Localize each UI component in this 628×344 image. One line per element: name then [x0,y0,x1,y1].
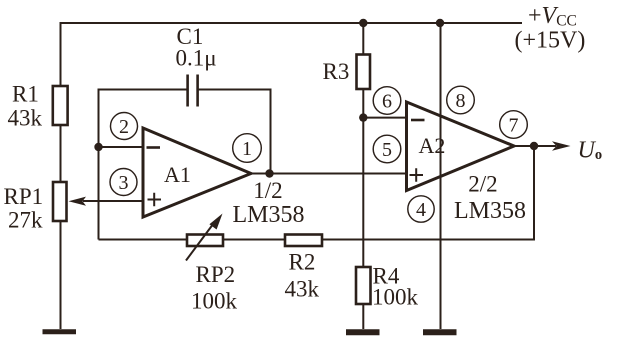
output arrowhead [552,141,571,151]
svg-text:LM358: LM358 [233,202,305,228]
svg-text:4: 4 [416,199,426,221]
wire: C1 left lead [98,89,188,91]
pin 4 [408,196,434,222]
ground (R4 column) [346,329,380,335]
pin 8 [447,86,475,114]
svg-text:2/2: 2/2 [468,172,497,197]
svg-text:43k: 43k [8,106,43,131]
svg-text:R1: R1 [12,82,39,107]
op-amp A1 [143,128,251,217]
RP2 adjustment arrow [186,214,223,261]
junction: A2 output node dot [530,142,538,150]
ground (A2 pin4 column) [423,329,457,335]
wire: RP1 wiper to A1 pin3 input [83,200,143,202]
svg-text:R3: R3 [323,59,350,84]
wire: R3/R4 column from rail to ground [362,23,364,329]
svg-text:A2: A2 [419,133,446,158]
svg-text:(+15V): (+15V) [515,28,586,54]
wire: A1 pin2 inverting input [99,146,144,148]
A2 plus sign [410,168,424,181]
junction: A1 output node dot [265,169,273,177]
A1 minus sign [147,146,161,149]
svg-text:27k: 27k [8,208,43,233]
pin 2 [111,113,138,140]
junction: rail to R3 dot [359,19,367,27]
svg-text:0.1μ: 0.1μ [176,46,217,71]
wire: A2 pin6 inverting input [363,117,406,119]
svg-text:100k: 100k [191,289,238,314]
pin 7 [500,111,528,139]
potentiometer RP2 [187,235,223,247]
svg-text:A1: A1 [164,162,191,187]
svg-text:RP2: RP2 [196,262,236,287]
resistor R3 [357,55,371,90]
wire: bottom feedback path left segment [99,239,188,241]
svg-text:3: 3 [119,172,129,194]
pin 1 [233,134,262,163]
A1 plus sign [148,193,162,206]
junction: rail to pin8 column dot [436,19,444,27]
svg-text:6: 6 [382,91,392,113]
svg-text:2: 2 [119,116,129,138]
wire: A2 pin8/pin4 supply column from rail to ground [440,23,442,329]
capacitor C1 [188,75,198,107]
wire: feedback box left edge (A1 inverting node) [98,90,100,240]
RP1 wiper arrow [69,197,87,206]
potentiometer RP1 [53,182,67,221]
wire: A1 output to A2 pin5 input [251,173,407,175]
junction: A1 inverting node dot [94,143,102,151]
wire: bottom feedback path between RP2 and R2 [223,239,285,241]
svg-text:RP1: RP1 [4,184,44,209]
wire: left column from rail through R1 and RP1 to ground [60,23,62,329]
wire: C1 right lead to output corner [198,90,271,174]
pin 5 [373,135,401,163]
resistor R2 [285,235,322,247]
resistor R1 [53,86,68,125]
pin 6 [373,87,401,115]
op-amp A2 [407,102,515,191]
svg-text:1/2: 1/2 [253,178,282,203]
ground (left column) [43,329,77,334]
wire: +Vcc top rail [60,22,523,24]
A2 minus sign [411,119,425,122]
svg-text:1: 1 [242,138,252,160]
junction: pin6 node dot [359,113,367,121]
svg-text:8: 8 [456,90,466,112]
svg-text:5: 5 [382,139,392,161]
svg-text:100k: 100k [372,285,419,310]
wire: A2 output to arrow [514,145,556,147]
pin 3 [110,169,137,196]
resistor R4 [356,267,371,304]
svg-text:R2: R2 [289,250,316,275]
svg-text:LM358: LM358 [454,198,526,224]
svg-text:7: 7 [509,115,519,137]
svg-text:43k: 43k [285,277,320,302]
wire: bottom feedback path right segment to A2 output riser [322,146,534,240]
